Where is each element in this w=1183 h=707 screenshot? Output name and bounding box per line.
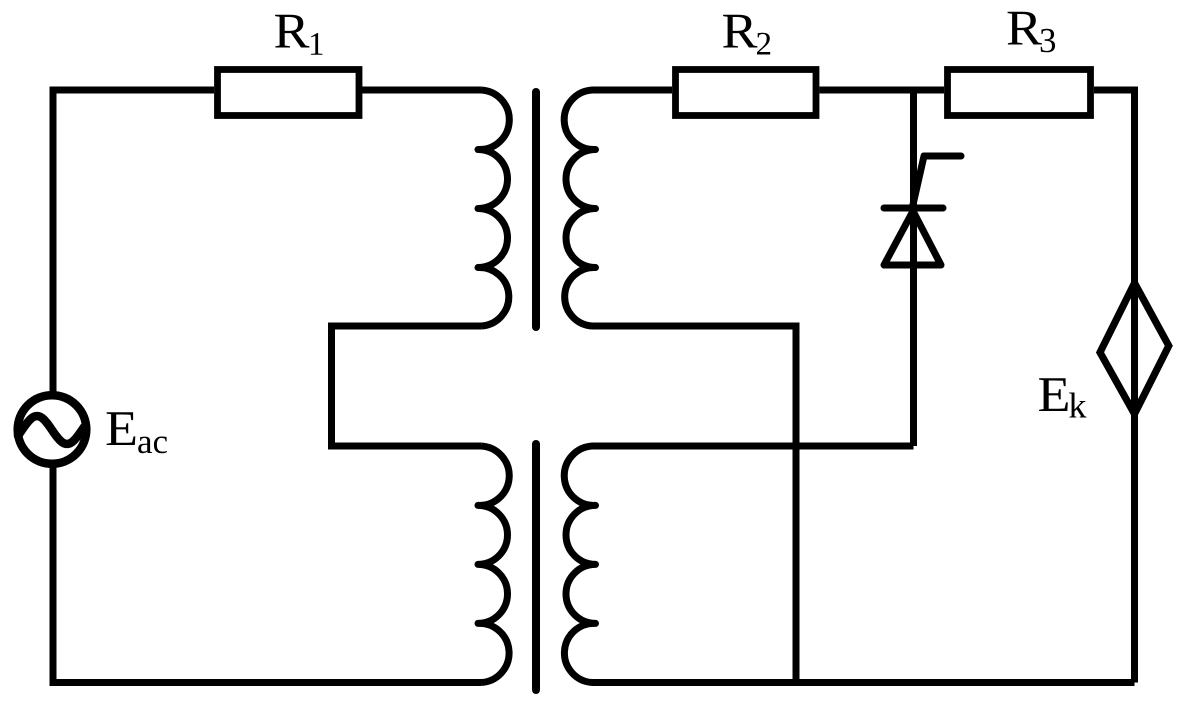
- zener diode anode triangle: [884, 211, 941, 265]
- wire bottom-left horizontal and left vertical to AC source: [53, 467, 481, 683]
- wire mid line from zener to secondary bottom winding: [592, 443, 914, 450]
- wire secondary top winding return via x=796 vertical: [592, 326, 796, 683]
- label Ek: [1039, 378, 1086, 417]
- resistor R1: [218, 70, 360, 116]
- transformer core top bar: [532, 92, 540, 327]
- label R1: [275, 15, 322, 55]
- wire zener branch vertical: [910, 90, 917, 446]
- transformer primary bottom winding: [478, 446, 509, 683]
- wire primary windings series link (left jog): [332, 326, 482, 446]
- transformer primary top winding: [478, 90, 509, 326]
- wire secondary top winding to R2: [592, 87, 672, 94]
- resistor R3: [948, 70, 1091, 116]
- wire right vertical through diamond down to bottom wire: [1131, 284, 1138, 683]
- transformer secondary top winding: [564, 90, 595, 326]
- wire R2 to R3 through zener junction: [820, 87, 945, 94]
- zener diode cathode hook: [912, 156, 961, 209]
- source Ek diamond: [1100, 283, 1169, 414]
- label R3: [1008, 12, 1056, 53]
- label R2: [723, 15, 770, 55]
- label Eac: [107, 412, 167, 453]
- zener diode cathode bar: [884, 205, 943, 212]
- wire top-left horizontal and left vertical to AC source: [53, 90, 214, 392]
- wire R1 to primary top winding: [362, 87, 481, 94]
- wire bottom-right horizontal: [592, 679, 1135, 686]
- resistor R2: [676, 70, 817, 116]
- wire R3 to top-right corner and down to diamond: [1094, 90, 1135, 284]
- transformer secondary bottom winding: [564, 446, 595, 683]
- AC source Eac (circle with sine): [18, 395, 87, 464]
- transformer core bottom bar: [532, 444, 540, 690]
